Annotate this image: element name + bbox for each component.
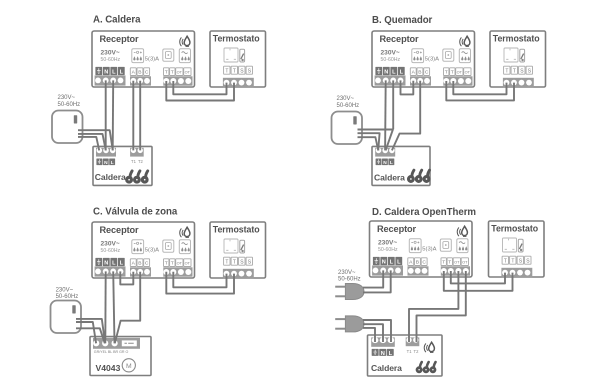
- caldera D mains terminals: [371, 337, 395, 357]
- svg-text:230V~: 230V~: [337, 96, 355, 102]
- valve aux inset: [122, 340, 137, 346]
- wire: socket lead 2 to valve: [76, 322, 96, 343]
- wire: receptor T2 to termostato T2: [446, 81, 514, 100]
- svg-text:V4043: V4043: [96, 363, 121, 373]
- wire: plug 2 to caldera L: [363, 320, 391, 342]
- svg-text:C. Válvula de zona: C. Válvula de zona: [93, 207, 178, 218]
- wire: jumper L to A: [120, 271, 133, 284]
- wire: socket to caldera earth: [358, 133, 380, 150]
- wire: socket earth to caldera: [78, 137, 99, 151]
- wire: receptor T1 to termostato T1: [453, 81, 506, 94]
- svg-text:Caldera: Caldera: [371, 363, 402, 373]
- svg-text:Caldera: Caldera: [95, 172, 126, 182]
- wire: relay A to caldera T1: [132, 81, 134, 151]
- caldera D flames: [417, 362, 422, 372]
- svg-text:A. Caldera: A. Caldera: [93, 15, 141, 26]
- caldera B mains terminals: [375, 148, 395, 167]
- svg-text:B. Quemador: B. Quemador: [372, 15, 433, 26]
- svg-text:GR/YEL BL BR GR O: GR/YEL BL BR GR O: [94, 350, 129, 354]
- wire: receptor L down: [392, 80, 394, 129]
- wire: socket lead 3 to valve: [76, 328, 105, 343]
- wire: receptor T1 to termostato T2: [166, 81, 234, 101]
- wire: plug 1 to receptor N: [363, 270, 383, 287]
- wire: OT2 to caldera T2: [417, 271, 466, 342]
- svg-text:230V~: 230V~: [56, 287, 74, 293]
- svg-text:D. Caldera OpenTherm: D. Caldera OpenTherm: [372, 207, 476, 218]
- caldera B flames: [409, 170, 414, 181]
- caldera A flames: [127, 171, 132, 182]
- mains plug P2: [335, 316, 364, 332]
- valve terminal strip: [93, 338, 140, 349]
- wire: socket N to caldera: [78, 134, 106, 151]
- svg-text:M: M: [126, 363, 132, 370]
- wall socket A: [52, 111, 83, 144]
- wire: socket L to caldera: [78, 130, 113, 150]
- caldera A mains terminals: [96, 148, 116, 167]
- mains plug P1: [335, 284, 364, 300]
- wire: plug 2 to caldera earth: [363, 328, 375, 342]
- wire: receptor N to valve: [104, 271, 106, 343]
- wire: receptor N to caldera: [384, 80, 387, 150]
- svg-text:50-60Hz: 50-60Hz: [56, 294, 79, 300]
- caldera A box: [93, 146, 152, 185]
- svg-text:50-60Hz: 50-60Hz: [338, 277, 361, 283]
- caldera D OpenTherm icon: [424, 342, 434, 352]
- wire: OT1 to caldera T1: [409, 271, 458, 342]
- wire: socket third lead: [358, 137, 379, 150]
- receptor U1: [92, 31, 195, 87]
- wire: receptor T1 to termostato T2: [166, 272, 234, 294]
- wire: receptor L to caldera: [112, 80, 115, 150]
- svg-text:50-60Hz: 50-60Hz: [337, 103, 360, 109]
- wire: receptor N to caldera: [105, 80, 107, 150]
- receptor U3: [372, 31, 475, 87]
- wire: relay B to valve: [115, 272, 140, 344]
- wire: jumper L to A: [401, 80, 414, 94]
- caldera B box: [372, 146, 430, 185]
- caldera A T1 T2 terminals: [130, 148, 144, 165]
- wire: plug 1 to receptor L: [363, 270, 391, 292]
- caldera D box: [368, 335, 443, 376]
- wire: socket to caldera N: [358, 130, 393, 151]
- wire: relay B to caldera L: [392, 81, 420, 151]
- wire: relay B to caldera T2: [139, 81, 141, 151]
- wire: receptor L to valve: [113, 271, 114, 343]
- svg-text:Caldera: Caldera: [374, 173, 405, 183]
- svg-text:230V~: 230V~: [338, 270, 356, 276]
- wall socket C: [51, 301, 82, 334]
- caldera D T1 T2 terminals: [406, 337, 420, 354]
- svg-text:50-60Hz: 50-60Hz: [58, 102, 81, 108]
- receptor U7: [370, 221, 473, 277]
- receptor U5: [92, 222, 195, 278]
- wire: receptor T1 to termostato: [451, 271, 505, 283]
- termostato U8: [489, 221, 545, 277]
- wire: socket lead 1 to valve: [76, 319, 105, 343]
- termostato U4: [490, 31, 546, 87]
- wire: receptor T2 to termostato T1: [173, 81, 226, 94]
- wall socket B: [332, 112, 363, 145]
- termostato U6: [210, 222, 266, 278]
- svg-text:230V~: 230V~: [58, 95, 76, 101]
- valve V4043 box: [90, 337, 151, 376]
- termostato U2: [210, 31, 266, 87]
- wire: receptor T2 to termostato T1: [173, 272, 226, 288]
- wire: plug 2 to caldera N: [363, 324, 383, 342]
- valve motor symbol: [122, 359, 135, 372]
- wire: receptor T2 to termostato: [444, 271, 513, 291]
